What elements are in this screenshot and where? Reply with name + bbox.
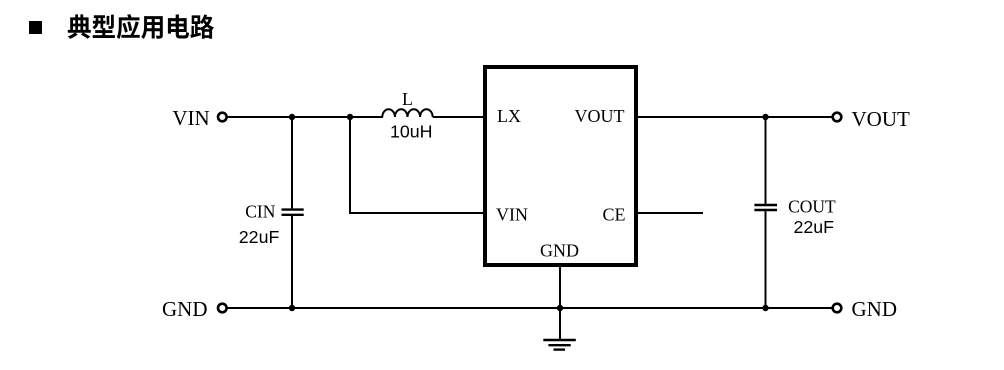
wire COUT lower segment: [765, 211, 767, 308]
IC U1 body: [485, 67, 636, 265]
wire CE stub: [636, 212, 703, 214]
capacitor COUT: [754, 205, 777, 210]
junction ground rail / COUT: [762, 305, 768, 311]
wire IC VIN branch: [350, 117, 485, 213]
svg-text:L: L: [402, 89, 413, 109]
svg-text:GND: GND: [852, 297, 898, 321]
wire CIN lower segment: [291, 216, 293, 308]
junction VOUT rail / COUT: [762, 114, 768, 120]
terminal GND right: [833, 304, 842, 313]
svg-text:VIN: VIN: [172, 106, 209, 130]
svg-text:22uF: 22uF: [239, 227, 280, 247]
wire CIN upper segment: [291, 117, 293, 208]
ground rail: [227, 307, 832, 309]
svg-text:CE: CE: [602, 205, 625, 225]
svg-text:VOUT: VOUT: [575, 106, 625, 126]
wire inductor to LX pin: [433, 116, 485, 118]
svg-text:10uH: 10uH: [390, 122, 433, 142]
inductor L1: [382, 109, 432, 117]
svg-text:COUT: COUT: [788, 197, 836, 217]
heading title 典型应用电路: [68, 14, 214, 39]
junction VIN rail / IC VIN branch: [347, 114, 353, 120]
heading bullet square: [29, 21, 42, 34]
svg-text:LX: LX: [497, 106, 521, 126]
wire VOUT rail: [636, 116, 832, 118]
svg-text:22uF: 22uF: [794, 217, 835, 237]
junction ground rail / IC GND: [557, 305, 563, 311]
terminal GND left: [218, 304, 227, 313]
svg-text:VOUT: VOUT: [852, 107, 910, 131]
terminal VOUT: [833, 113, 842, 122]
svg-text:VIN: VIN: [496, 205, 528, 225]
svg-text:CIN: CIN: [245, 202, 276, 222]
wire IC GND pin: [559, 265, 561, 308]
capacitor CIN: [282, 210, 304, 215]
junction ground rail / CIN: [289, 305, 295, 311]
ground symbol: [543, 308, 576, 350]
terminal VIN: [218, 113, 227, 122]
svg-text:GND: GND: [162, 297, 208, 321]
wire COUT upper segment: [765, 117, 767, 204]
junction VIN rail / CIN: [289, 114, 295, 120]
svg-text:GND: GND: [540, 241, 579, 261]
wire VIN rail to inductor: [227, 116, 383, 118]
